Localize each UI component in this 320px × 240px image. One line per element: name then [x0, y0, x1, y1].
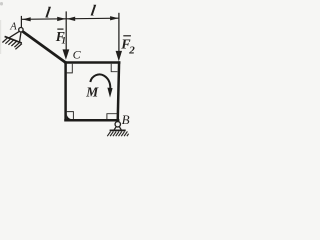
rigid corner square bottom-left	[67, 112, 74, 120]
force F2 label bar	[123, 35, 131, 37]
force F2 arrowhead	[116, 51, 122, 62]
support A hatching	[2, 38, 22, 49]
label l left span	[44, 5, 52, 22]
scan smudge left edge	[0, 20, 1, 54]
support A triangle legs	[9, 31, 21, 42]
svg-text:B: B	[122, 112, 130, 127]
svg-text:C: C	[73, 47, 82, 61]
support B ground line	[110, 129, 126, 131]
moment M arrowhead	[107, 88, 112, 98]
svg-text:2: 2	[128, 44, 135, 56]
moment M arc	[90, 74, 110, 88]
dimension arrowhead mid-left	[57, 17, 65, 21]
support B triangle legs	[114, 127, 122, 131]
dimension arrowhead mid-right	[67, 17, 76, 21]
svg-text:1: 1	[61, 37, 66, 47]
label l right span	[90, 3, 98, 20]
force F2 line (with dimension tick)	[118, 13, 120, 52]
corner fillet bottom-left	[67, 114, 72, 119]
pin circle A	[19, 28, 23, 32]
svg-text:M: M	[85, 84, 99, 99]
force F1 line (with dimension tick)	[65, 11, 67, 50]
dimension arrowhead right (tip at F2 tick)	[110, 16, 119, 20]
rigid corner square top-right	[111, 64, 117, 72]
frame bottom member	[64, 119, 119, 122]
bar AC	[21, 30, 66, 62]
frame left member	[64, 61, 67, 121]
rigid corner square bottom-right	[107, 114, 118, 120]
scan smudge top-left corner	[0, 2, 3, 6]
support B hatching	[107, 131, 128, 136]
force F1 arrowhead	[63, 49, 70, 59]
frame top member	[64, 61, 120, 64]
rigid corner square at C	[67, 64, 73, 73]
pin circle B	[115, 122, 120, 127]
frame right member	[118, 61, 119, 122]
dimension arrowhead left (tip at A tick)	[22, 17, 31, 21]
force F1 label bar	[57, 28, 63, 30]
support A ground line	[5, 36, 22, 43]
svg-text:A: A	[9, 21, 17, 32]
dimension extension tick above A	[20, 16, 22, 27]
dimension line	[22, 18, 119, 19]
